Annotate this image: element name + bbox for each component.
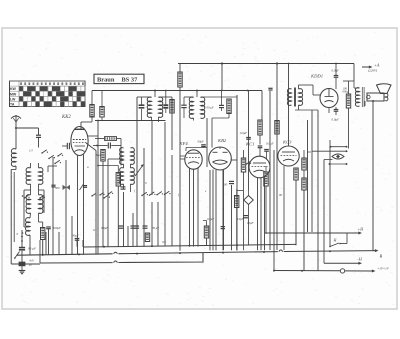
svg-text:0.0μF: 0.0μF (332, 118, 340, 122)
svg-text:00μF: 00μF (198, 140, 205, 144)
svg-text:B: B (380, 254, 383, 259)
svg-text:00: 00 (224, 183, 228, 187)
svg-text:LW: LW (10, 97, 16, 101)
svg-text:KC3: KC3 (282, 140, 292, 145)
svg-text:300: 300 (55, 186, 60, 190)
svg-text:0.1: 0.1 (93, 228, 97, 232)
svg-text:(220V): (220V) (368, 69, 377, 73)
svg-text:000μF: 000μF (53, 226, 61, 230)
svg-text:KDD1: KDD1 (310, 74, 323, 79)
svg-text:1/5: 1/5 (29, 149, 33, 153)
svg-text:0.0μF: 0.0μF (237, 217, 244, 221)
svg-text:a: a (17, 232, 19, 236)
svg-text:Braun: Braun (97, 77, 115, 84)
svg-text:00 μF: 00 μF (28, 247, 37, 251)
svg-text:000μ: 000μ (343, 90, 349, 94)
svg-text:00 μF: 00 μF (207, 106, 214, 110)
svg-text:BS 37: BS 37 (122, 77, 139, 84)
svg-text:KF4: KF4 (179, 141, 189, 146)
svg-text:0.0μF: 0.0μF (332, 69, 340, 73)
svg-text:TA: TA (10, 103, 15, 107)
svg-text:00μF: 00μF (72, 234, 79, 238)
svg-text:KK2: KK2 (61, 115, 71, 120)
svg-text:MW: MW (10, 92, 17, 96)
svg-text:00μF: 00μF (247, 221, 254, 225)
svg-text:KW: KW (10, 87, 17, 91)
svg-text:KB2: KB2 (217, 138, 227, 143)
svg-text:00 μF: 00 μF (152, 226, 159, 230)
svg-text:0.0μF: 0.0μF (207, 217, 214, 221)
svg-text:+1V+1V: +1V+1V (377, 267, 390, 271)
svg-text:0.0μF: 0.0μF (101, 226, 108, 230)
svg-text:0.0: 0.0 (162, 240, 166, 244)
svg-text:0.0μF: 0.0μF (240, 131, 247, 135)
svg-text:00μF: 00μF (96, 153, 103, 157)
svg-text:00: 00 (279, 193, 283, 197)
svg-text:+A: +A (374, 63, 380, 68)
svg-text:KC1: KC1 (245, 142, 254, 147)
